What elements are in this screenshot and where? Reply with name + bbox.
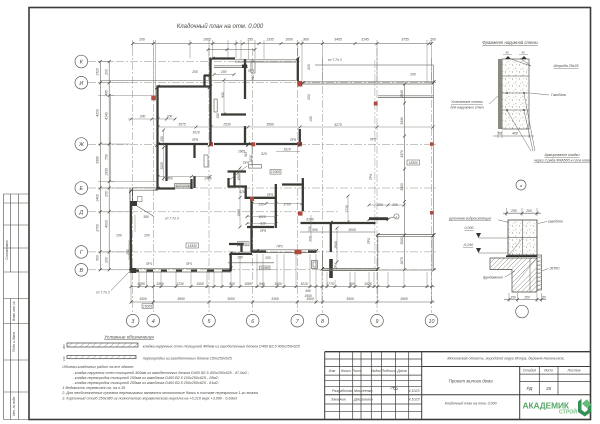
svg-text:200: 200 [191,70,198,74]
interior dimension texts [115,70,404,265]
svg-text:200: 200 [115,234,122,238]
svg-text:3. Кирпичный столб 250х380 из: 3. Кирпичный столб 250х380 из полнотелог… [62,396,238,400]
svg-text:4200: 4200 [95,109,99,117]
svg-text:400: 400 [62,344,66,349]
Г axis band piers [251,250,317,252]
svg-text:ПР2: ПР2 [367,238,371,244]
svg-text:16025: 16025 [143,305,152,309]
svg-text:200: 200 [105,69,109,76]
svg-text:150: 150 [62,356,66,361]
svg-text:Лист: Лист [543,369,553,373]
E axis wall with door [157,187,175,189]
svg-text:1 Ведомость перемычек см. на л: 1 Ведомость перемычек см. на л.39 [62,386,125,390]
svg-text:15350: 15350 [239,242,248,246]
svg-text:2. Для необозначенных проемов: 2. Для необозначенных проемов перемычкам… [61,391,258,395]
svg-text:250: 250 [105,191,109,198]
svg-text:18300: 18300 [409,161,418,165]
svg-text:1730: 1730 [345,205,349,213]
svg-text:ПР3: ПР3 [277,245,283,249]
svg-text:1945: 1945 [400,90,404,98]
svg-text:Кладочный план на отм. 0,000: Кладочный план на отм. 0,000 [445,402,497,406]
logo [523,399,592,417]
left margin strip table [4,194,30,420]
svg-text:№док: №док [371,369,381,373]
interior: vertical x=248 with door gap [244,59,246,99]
svg-text:Листов: Листов [566,369,580,373]
svg-text:ПР5: ПР5 [260,229,266,233]
svg-text:2945: 2945 [334,241,338,250]
svg-text:Моисеенко: Моисеенко [354,389,372,393]
svg-text:1650: 1650 [274,282,282,286]
brick column (filled) [329,259,333,278]
svg-text:1335: 1335 [266,38,274,42]
svg-text:38: 38 [546,386,552,391]
svg-text:для наружных стен: для наружных стен [450,106,483,110]
svg-text:- кладка перегородок толщин: - кладка перегородок толщиной 250мм из г… [73,381,219,385]
svg-text:Разработал: Разработал [332,389,353,393]
svg-text:сп 7.7л 3: сп 7.7л 3 [96,291,110,295]
svg-text:40: 40 [505,51,509,55]
lintel boxes (door openings) [175,61,262,188]
walls thick [130,58,388,279]
svg-text:1000: 1000 [285,38,293,42]
window symbol right wing [312,261,318,269]
section labels [96,58,342,295]
bottom right wing band [322,268,378,270]
svg-text:4: 4 [152,319,155,325]
svg-text:1625: 1625 [258,215,266,219]
И axis band top right [303,82,434,84]
svg-text:250: 250 [510,209,517,213]
svg-text:Утепление стены: Утепление стены [451,100,483,104]
E axis window left [132,188,159,190]
svg-text:сп 7.7л 3: сп 7.7л 3 [165,217,179,221]
svg-text:Армирование кладки: Армирование кладки [544,153,580,157]
svg-text:6: 6 [251,319,254,325]
svg-text:И: И [79,81,83,87]
svg-text:9: 9 [376,319,379,325]
svg-text:ЭППС: ЭППС [550,267,561,271]
svg-text:СТРОЙ: СТРОЙ [559,408,577,416]
window bands thin double lines [100,60,435,272]
svg-text:150: 150 [216,113,220,119]
svg-text:200: 200 [307,64,311,71]
bottom wall left wing piers [131,269,232,271]
svg-text:960: 960 [303,38,309,42]
svg-text:3370: 3370 [400,150,404,158]
left outer wall x158 [156,86,158,190]
svg-text:3900: 3900 [346,297,354,301]
foundation detail (right middle) [448,208,563,318]
svg-text:3: 3 [131,319,134,325]
svg-text:8: 8 [321,319,324,325]
svg-text:сп 7.7л 3: сп 7.7л 3 [328,58,342,62]
svg-text:150: 150 [309,116,313,122]
ticks bottom rows [130,285,434,304]
svg-text:ПР5: ПР5 [192,138,198,142]
axis grid vertical lines [133,48,432,313]
svg-text:Инв. № подл.: Инв. № подл. [12,396,16,416]
svg-text:200: 200 [105,257,109,264]
junction tick marks [129,57,435,271]
svg-text:1805: 1805 [237,173,241,181]
svg-text:5275: 5275 [334,123,342,127]
svg-text:2400: 2400 [203,177,212,181]
svg-text:1500: 1500 [139,297,147,301]
svg-text:0,000: 0,000 [465,226,474,230]
svg-text:250: 250 [126,249,130,256]
svg-text:1010: 1010 [192,131,200,135]
svg-text:ПР6: ПР6 [290,138,296,142]
svg-text:15350: 15350 [260,266,269,270]
svg-text:ПР5: ПР5 [267,193,273,197]
svg-text:1500: 1500 [304,294,312,298]
svg-text:200: 200 [220,70,227,74]
interior vertical x194 with door [193,145,195,158]
svg-text:150: 150 [510,295,516,299]
legend [62,335,301,362]
svg-text:ПР1: ПР1 [146,262,152,266]
svg-text:200: 200 [307,94,311,101]
svg-text:2700: 2700 [95,224,99,233]
svg-text:3000: 3000 [227,297,235,301]
svg-text:900: 900 [229,282,235,286]
svg-text:- кладка наружных стен толщ: - кладка наружных стен толщиной 400мм из… [73,371,249,375]
svg-text:250: 250 [523,295,530,299]
bottom window bands left wing [131,269,231,272]
dimension lines bottom [131,287,435,303]
bay corner block left [204,74,211,76]
svg-text:Подп. и дата: Подп. и дата [12,332,16,352]
svg-text:50: 50 [542,295,546,299]
top extension lines [133,40,432,96]
thin terrace outline right [315,65,434,270]
svg-text:1520: 1520 [95,68,99,76]
bottom extension lines [131,254,432,304]
interior horizontal y=114 [221,113,246,115]
svg-text:1625: 1625 [364,282,372,286]
axis grid horizontal lines [88,62,436,270]
svg-text:400: 400 [512,132,518,136]
svg-text:1610: 1610 [283,148,291,152]
svg-text:3025: 3025 [160,162,164,170]
svg-text:3590: 3590 [266,123,274,127]
svg-text:15350: 15350 [188,244,197,248]
svg-text:3145: 3145 [361,38,369,42]
svg-text:Е: Е [79,186,83,192]
svg-text:1675: 1675 [400,257,404,265]
svg-text:500: 500 [312,228,318,232]
svg-text:3380: 3380 [95,156,99,164]
svg-text:ПР5: ПР5 [208,74,212,80]
svg-text:Дмириевич: Дмириевич [353,398,373,402]
svg-text:910: 910 [260,222,266,226]
svg-text:795: 795 [247,38,253,42]
svg-text:Штроба 25х25: Штроба 25х25 [553,64,578,68]
axis circles left [75,55,88,276]
svg-text:Кладочный план на отм. 0,000: Кладочный план на отм. 0,000 [177,23,264,30]
svg-text:ПР2: ПР2 [334,263,338,269]
svg-text:4140: 4140 [105,112,109,120]
svg-text:кладка наружных стен толщиной: кладка наружных стен толщиной 400мм из г… [143,345,301,349]
svg-text:1010: 1010 [300,282,308,286]
svg-text:3900: 3900 [177,297,185,301]
svg-text:1630: 1630 [249,155,253,163]
svg-text:950: 950 [221,92,225,98]
svg-text:200: 200 [236,255,243,259]
bay window band [235,60,296,62]
svg-text:380: 380 [143,215,149,219]
svg-text:40: 40 [521,51,525,55]
svg-text:3300: 3300 [271,297,279,301]
red columns [151,81,433,254]
svg-text:ПР4: ПР4 [369,174,373,180]
svg-text:перегородки из газобетонных бл: перегородки из газобетонных блоков 150х2… [143,357,233,361]
svg-text:1085: 1085 [137,282,145,286]
Г axis window band [251,250,316,253]
svg-text:200: 200 [139,115,146,119]
svg-text:через 3 ряда Ф8А500 в слое кле: через 3 ряда Ф8А500 в слое клея [534,159,590,163]
svg-text:-0,240: -0,240 [463,243,473,247]
svg-text:1865: 1865 [237,209,241,217]
svg-text:Московская область, городской: Московская область, городской округ Истр… [447,356,564,360]
svg-text:3300: 3300 [400,183,404,191]
thin terrace outline left top [111,96,157,182]
svg-text:200: 200 [264,256,271,260]
svg-text:2905: 2905 [202,38,211,42]
svg-text:50: 50 [498,132,502,136]
svg-text:1085: 1085 [244,282,252,286]
svg-text:Заказчик: Заказчик [331,398,346,402]
svg-text:1500: 1500 [156,282,164,286]
svg-text:ПР5: ПР5 [243,161,249,165]
svg-text:3000: 3000 [348,228,356,232]
svg-text:910: 910 [251,74,255,80]
axis circles bottom [126,314,437,327]
svg-text:фундамент: фундамент [483,276,503,280]
svg-text:Подпись: Подпись [381,369,395,373]
svg-text:Согласовано: Согласовано [5,240,9,260]
svg-text:Дата: Дата [396,369,406,373]
svg-text:200: 200 [429,38,436,42]
svg-text:200: 200 [525,209,532,213]
detail ref circle a [228,214,399,263]
svg-text:Объемы кладочных работ на все: Объемы кладочных работ на все здание: [62,365,134,369]
svg-text:Изм: Изм [329,369,336,373]
svg-text:3900: 3900 [400,297,408,301]
stair pier + diagonal bottom-left [111,166,247,291]
svg-text:200: 200 [309,236,313,243]
svg-text:915: 915 [244,151,248,157]
svg-text:3000: 3000 [400,237,404,245]
left extension lines [98,62,131,270]
window niche + black lintel [214,99,217,112]
svg-text:940: 940 [259,282,265,286]
svg-text:Стадия: Стадия [523,369,537,373]
svg-text:900: 900 [349,282,355,286]
right dim column [404,84,406,270]
svg-text:500: 500 [95,255,99,261]
svg-text:2530: 2530 [222,123,231,127]
svg-text:3575: 3575 [178,123,186,127]
svg-text:1775: 1775 [326,282,334,286]
svg-text:рулонная гидроизоляция: рулонная гидроизоляция [448,217,491,221]
svg-text:Фрагмент наружной стены: Фрагмент наружной стены [482,40,537,45]
svg-text:Газоблок: Газоблок [551,93,566,97]
left top wall [157,85,212,87]
svg-text:ПР5: ПР5 [370,138,376,142]
svg-text:200: 200 [391,203,398,207]
wall detail fragment (top right) [450,40,590,190]
svg-text:Условные обозначения: Условные обозначения [104,335,154,340]
dimension lines left columns [100,62,109,271]
svg-text:3405: 3405 [334,38,342,42]
interior dimension lines [128,75,433,263]
svg-text:Лист: Лист [351,369,361,373]
svg-text:Взам. инв. №: Взам. инв. № [12,301,16,321]
svg-text:490: 490 [305,289,311,293]
ticks top dim row [131,42,433,51]
svg-text:495: 495 [105,90,109,96]
svg-text:1935: 1935 [105,168,109,176]
lower left outer wall (axis 3) [130,202,132,272]
svg-text:ПР1: ПР1 [186,262,192,266]
svg-text:1230: 1230 [176,282,184,286]
svg-text:200: 200 [143,234,150,238]
interior vertical from Ж down x166.5 [165,145,167,181]
svg-text:525: 525 [239,190,245,194]
svg-text:10: 10 [429,319,435,325]
top bay wall К axis [212,57,235,59]
svg-text:3755: 3755 [401,38,409,42]
svg-text:3330: 3330 [400,117,404,125]
boxed room labels [142,160,420,309]
svg-text:525: 525 [261,152,267,156]
svg-text:газоблок: газоблок [548,220,563,224]
bay right wall down to И [297,58,299,81]
dimension lines top [133,44,432,50]
interior dim ticks [130,73,435,264]
title block [325,352,591,420]
svg-text:750: 750 [105,154,109,160]
long interior wall Ж axis [158,143,209,145]
svg-text:Проект жилого дома: Проект жилого дома [449,379,494,384]
svg-text:6100: 6100 [306,218,314,222]
svg-text:155: 155 [258,203,264,207]
svg-text:Д: Д [78,210,83,216]
svg-text:200: 200 [138,38,145,42]
svg-text:4.1023: 4.1023 [409,389,420,393]
svg-text:Ж: Ж [78,142,85,148]
svg-text:1400: 1400 [95,194,99,202]
svg-text:4000: 4000 [105,220,109,228]
svg-text:В: В [79,268,83,274]
svg-text:РД: РД [527,386,534,391]
svg-text:1500: 1500 [196,282,204,286]
ticks left columns [99,60,111,271]
lintel labels [146,69,376,269]
svg-text:200: 200 [166,115,173,119]
svg-text:200: 200 [376,203,383,207]
svg-text:- кладка перегородок толщин: - кладка перегородок толщиной 150мм из г… [73,376,219,380]
interior right of bath [302,178,304,211]
bath cluster [228,185,248,187]
svg-text:10300: 10300 [271,170,280,174]
svg-text:1700: 1700 [283,203,291,207]
svg-text:Колич: Колич [341,369,351,373]
svg-text:150: 150 [160,136,164,142]
svg-text:4.1023: 4.1023 [409,398,420,402]
svg-text:2400: 2400 [164,177,173,181]
svg-text:200: 200 [409,73,416,77]
svg-text:ПР5: ПР5 [248,69,254,73]
wall piece near axis 8 y=219 [369,217,388,220]
